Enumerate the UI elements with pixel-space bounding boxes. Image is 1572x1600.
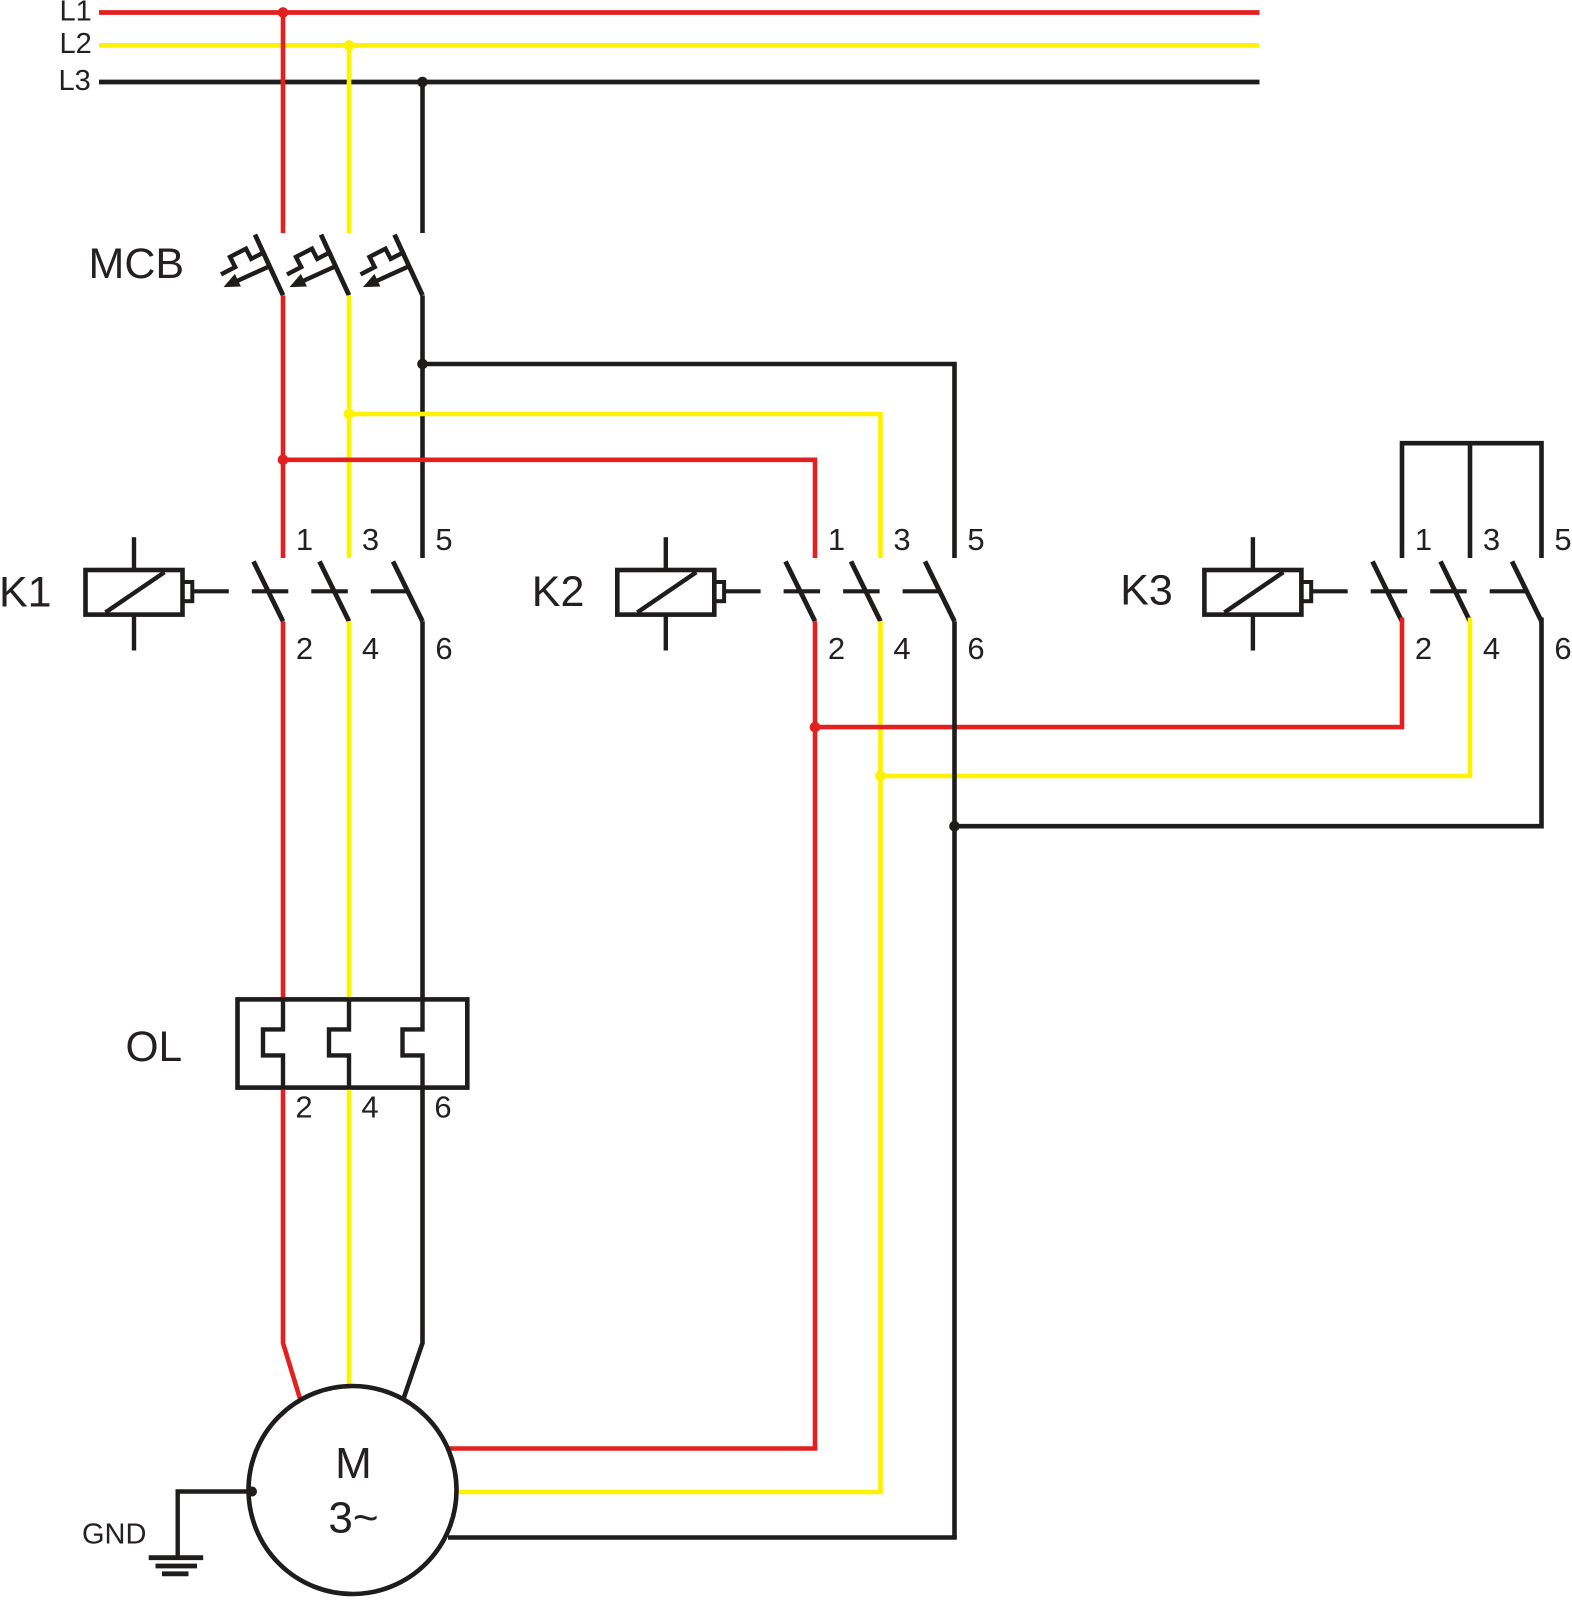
wire red OL to motor U <box>283 1090 300 1399</box>
K3 main contact pole 3-4 <box>1441 561 1471 621</box>
svg-text:2: 2 <box>828 631 845 666</box>
wire yellow from MCB to K1 contact 3 <box>347 295 352 558</box>
wire yellow K2-4 down to junction and motor corner <box>878 621 883 1492</box>
overload relay OL box <box>238 999 468 1087</box>
wire black OL to motor W <box>403 1088 422 1400</box>
node red delta junction <box>810 722 821 733</box>
K1 mechanical linkage (dashed) <box>192 589 409 593</box>
svg-text:L3: L3 <box>59 65 91 97</box>
svg-text:4: 4 <box>362 631 379 666</box>
svg-text:6: 6 <box>435 631 452 666</box>
svg-text:1: 1 <box>296 522 313 557</box>
wire yellow K1-4 down to OL <box>347 621 352 997</box>
wire star bridge middle drop to K3 contact 3 <box>1468 443 1473 558</box>
wire yellow branch to K2 contact 3 <box>349 414 881 558</box>
motor M 3~ <box>249 1386 457 1594</box>
OL heater element pole 1 <box>263 999 283 1087</box>
ground symbol bar 3 <box>162 1571 189 1576</box>
wire black K2-6 down to junction and motor corner <box>952 621 957 1537</box>
wire motor frame to ground <box>178 1492 254 1558</box>
K3 main contact pole 1-2 <box>1373 561 1403 621</box>
K2 main contact pole 1-2 <box>786 561 816 621</box>
svg-text:6: 6 <box>434 1090 451 1125</box>
svg-text:2: 2 <box>295 1090 312 1125</box>
OL heater element pole 2 <box>329 999 349 1087</box>
node black delta junction <box>949 821 960 832</box>
K3 main contact pole 5-6 <box>1512 561 1542 621</box>
svg-text:2: 2 <box>1415 631 1432 666</box>
svg-text:M: M <box>335 1439 372 1488</box>
K1 main contact pole 1-2 <box>254 561 284 621</box>
svg-text:2: 2 <box>296 631 313 666</box>
wire red K2-2 down to junction and motor corner <box>813 621 818 1448</box>
wire red delta return to motor <box>448 1446 817 1451</box>
svg-text:3: 3 <box>362 522 379 557</box>
node red branch junction <box>278 455 289 466</box>
circuit breaker MCB pole 1 (L1) <box>221 235 283 296</box>
K3 mechanical linkage (dashed) <box>1311 589 1528 593</box>
svg-text:K3: K3 <box>1120 567 1173 615</box>
wire black junction to K3 contact 6 <box>955 618 1542 827</box>
contactor coil K3 <box>1204 537 1311 650</box>
node yellow branch junction <box>344 409 355 420</box>
svg-text:6: 6 <box>1554 631 1571 666</box>
circuit breaker MCB pole 2 (L2) <box>287 235 349 296</box>
svg-text:L1: L1 <box>60 0 92 28</box>
svg-text:1: 1 <box>1415 522 1432 557</box>
OL heater element pole 3 <box>403 999 423 1087</box>
wire yellow delta return to motor <box>457 1490 883 1495</box>
node L3/drop junction <box>417 77 428 88</box>
node L1/drop junction <box>278 7 289 18</box>
wire red K1-2 down to OL <box>281 621 286 997</box>
svg-text:4: 4 <box>893 631 910 666</box>
node black branch junction <box>417 359 428 370</box>
contactor coil K2 <box>617 537 724 650</box>
svg-text:3~: 3~ <box>328 1494 378 1543</box>
wire black delta return to motor <box>448 1535 957 1540</box>
wire L3 drop to MCB pole 3 (black) <box>420 82 425 233</box>
svg-text:3: 3 <box>1483 522 1500 557</box>
wire L2 drop to MCB pole 2 (yellow) <box>347 45 352 233</box>
K2 mechanical linkage (dashed) <box>724 589 941 593</box>
svg-text:5: 5 <box>1554 522 1571 557</box>
svg-text:OL: OL <box>126 1024 183 1071</box>
node motor ground junction <box>247 1487 257 1497</box>
wire L1 drop to MCB pole 1 (red) <box>281 13 286 234</box>
wire L2 bus (yellow) <box>99 43 1260 48</box>
svg-text:K2: K2 <box>532 568 585 616</box>
wire red junction to K3 contact 2 <box>815 618 1402 728</box>
K2 main contact pole 3-4 <box>851 561 881 621</box>
svg-text:4: 4 <box>361 1090 378 1125</box>
node yellow delta junction <box>875 771 886 782</box>
ground symbol bar 1 <box>149 1555 204 1560</box>
svg-text:K1: K1 <box>0 569 52 617</box>
wire red from MCB to K1 contact 1 <box>281 295 286 558</box>
svg-text:4: 4 <box>1483 631 1500 666</box>
wire yellow OL to motor V <box>347 1090 352 1388</box>
K1 main contact pole 5-6 <box>393 561 423 621</box>
wire L1 bus (red) <box>99 10 1260 15</box>
K2 main contact pole 5-6 <box>925 561 955 621</box>
svg-text:3: 3 <box>893 522 910 557</box>
svg-text:L2: L2 <box>60 28 92 60</box>
wire star bridge over K3 contacts <box>1402 443 1542 558</box>
wire red branch to K2 contact 1 <box>283 460 815 558</box>
K1 main contact pole 3-4 <box>320 561 350 621</box>
wire L3 bus (black) <box>99 80 1260 85</box>
svg-text:5: 5 <box>967 522 984 557</box>
wire black from MCB to K1 contact 5 <box>420 295 425 558</box>
svg-text:6: 6 <box>967 631 984 666</box>
contactor coil K1 <box>86 537 193 650</box>
ground symbol bar 2 <box>156 1564 198 1569</box>
svg-text:1: 1 <box>828 522 845 557</box>
wire black K1-6 down to OL <box>420 621 425 999</box>
wire black branch to K2 contact 5 <box>423 364 955 558</box>
svg-text:MCB: MCB <box>89 240 185 288</box>
wire yellow junction to K3 contact 4 <box>881 618 1471 777</box>
node L2/drop junction <box>344 40 355 51</box>
svg-text:GND: GND <box>82 1519 146 1551</box>
circuit breaker MCB pole 3 (L3) <box>361 235 423 296</box>
svg-text:5: 5 <box>435 522 452 557</box>
